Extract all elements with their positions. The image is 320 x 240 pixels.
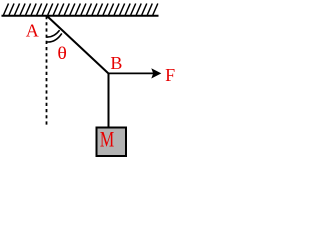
svg-text:A: A	[26, 21, 39, 41]
node A dashed vertical reference line	[46, 16, 48, 125]
force F arrow	[109, 72, 155, 74]
wire string A to B	[47, 16, 109, 74]
wire string B to mass	[108, 74, 110, 128]
ceiling hatching	[4, 4, 158, 16]
ceiling line	[2, 15, 159, 17]
svg-text:B: B	[110, 53, 122, 73]
svg-text:θ: θ	[57, 43, 67, 63]
angle arc outer	[46, 33, 62, 42]
svg-text:M: M	[100, 127, 114, 152]
svg-text:F: F	[165, 65, 175, 85]
angle arc inner	[46, 30, 59, 37]
mass M box	[97, 128, 127, 157]
